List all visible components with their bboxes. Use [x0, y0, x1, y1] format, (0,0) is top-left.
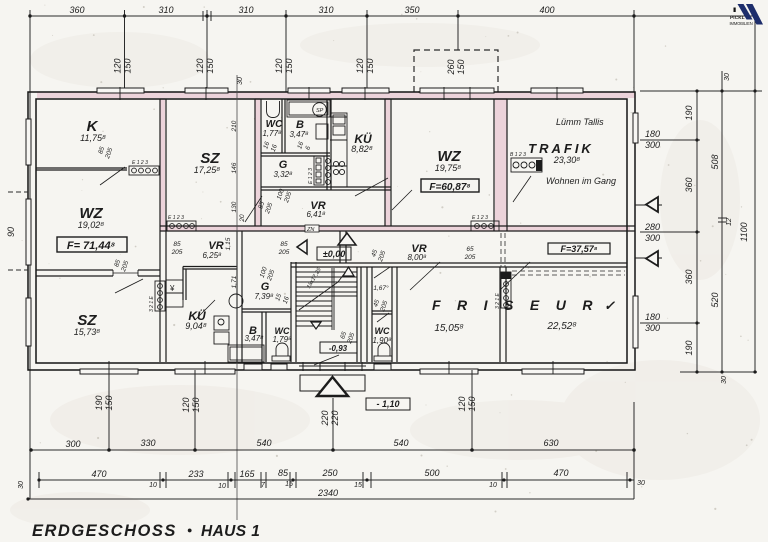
svg-text:3,47⁸: 3,47⁸	[244, 334, 264, 343]
svg-text:190: 190	[94, 395, 104, 410]
svg-text:15: 15	[285, 481, 293, 488]
svg-text:150: 150	[123, 58, 133, 73]
svg-text:ERDGESCHOSS: ERDGESCHOSS	[32, 522, 177, 540]
svg-text:65: 65	[466, 246, 474, 253]
svg-text:15,05⁸: 15,05⁸	[434, 323, 463, 334]
svg-text:10: 10	[218, 483, 226, 490]
svg-text:-0,93: -0,93	[329, 344, 348, 353]
svg-text:15: 15	[354, 482, 362, 489]
svg-text:10: 10	[149, 482, 157, 489]
svg-text:85: 85	[280, 241, 288, 248]
svg-text:8,82⁸: 8,82⁸	[351, 144, 373, 154]
svg-text:500: 500	[424, 468, 439, 478]
svg-text:23,30⁸: 23,30⁸	[553, 155, 581, 165]
svg-text:E 1 2 3: E 1 2 3	[168, 215, 184, 221]
svg-text:310: 310	[158, 5, 173, 15]
svg-text:90: 90	[6, 227, 16, 237]
svg-text:330: 330	[140, 438, 155, 448]
svg-text:Lümm Tallis: Lümm Tallis	[556, 117, 604, 127]
svg-text:146: 146	[231, 162, 238, 173]
svg-text:630: 630	[543, 438, 558, 448]
svg-text:- 1,10: - 1,10	[376, 399, 399, 409]
svg-text:150: 150	[205, 58, 215, 73]
svg-text:150: 150	[456, 59, 466, 74]
svg-text:400: 400	[539, 5, 554, 15]
svg-text:8,00⁸: 8,00⁸	[407, 253, 427, 262]
svg-text:ZN: ZN	[306, 227, 314, 233]
svg-text:30: 30	[724, 73, 731, 81]
svg-text:1,79⁸: 1,79⁸	[272, 335, 292, 344]
svg-text:260: 260	[446, 59, 456, 75]
svg-text:FRISEUR: FRISEUR	[432, 297, 609, 313]
svg-text:300: 300	[645, 233, 660, 243]
svg-text:360: 360	[684, 269, 694, 284]
svg-text:E 1 2 3: E 1 2 3	[308, 168, 314, 184]
svg-text:310: 310	[318, 5, 333, 15]
svg-text:30: 30	[237, 77, 244, 85]
svg-text:17,25⁸: 17,25⁸	[194, 165, 221, 175]
svg-text:220: 220	[320, 410, 330, 426]
svg-text:2340: 2340	[317, 488, 338, 498]
svg-text:520: 520	[710, 292, 720, 307]
svg-text:1,67°: 1,67°	[373, 284, 389, 292]
svg-text:Wohnen im Gang: Wohnen im Gang	[546, 176, 616, 186]
svg-text:220: 220	[330, 410, 340, 426]
svg-text:3 2 1 E: 3 2 1 E	[149, 295, 155, 312]
svg-text:190: 190	[684, 340, 694, 355]
svg-text:1100: 1100	[739, 222, 749, 241]
svg-text:150: 150	[467, 396, 477, 411]
svg-text:✓: ✓	[604, 298, 616, 313]
svg-text:TRAFIK: TRAFIK	[528, 141, 594, 156]
svg-text:F= 71,44⁸: F= 71,44⁸	[67, 240, 116, 252]
svg-text:150: 150	[284, 58, 294, 73]
svg-text:E 1 2 3: E 1 2 3	[472, 215, 488, 221]
svg-text:120: 120	[195, 58, 205, 73]
svg-text:540: 540	[256, 438, 271, 448]
svg-text:120: 120	[274, 58, 284, 73]
svg-text:IMMOBILIEN: IMMOBILIEN	[730, 21, 753, 26]
svg-text:F=37,57⁸: F=37,57⁸	[560, 244, 597, 254]
svg-text:540: 540	[393, 438, 408, 448]
svg-text:360: 360	[69, 5, 84, 15]
svg-text:PICKL: PICKL	[730, 15, 745, 20]
svg-text:205: 205	[464, 254, 476, 261]
svg-text:210: 210	[231, 120, 238, 132]
svg-text:12: 12	[726, 218, 733, 226]
svg-text:508: 508	[710, 154, 720, 169]
svg-text:9,04⁸: 9,04⁸	[185, 321, 207, 331]
svg-text:120: 120	[355, 58, 365, 73]
svg-text:310: 310	[238, 5, 253, 15]
svg-text:470: 470	[91, 469, 106, 479]
svg-text:120: 120	[181, 397, 191, 412]
svg-text:19,02⁸: 19,02⁸	[78, 220, 105, 230]
svg-text:30: 30	[637, 480, 645, 487]
svg-text:250: 250	[321, 468, 337, 478]
svg-text:85: 85	[278, 468, 289, 478]
svg-text:HAUS 1: HAUS 1	[201, 523, 260, 540]
svg-text:470: 470	[553, 468, 568, 478]
svg-text:280: 280	[644, 222, 660, 232]
svg-text:130: 130	[231, 201, 238, 212]
svg-text:19,75⁸: 19,75⁸	[435, 163, 462, 173]
svg-text:1,71: 1,71	[231, 275, 238, 288]
svg-text:205: 205	[278, 249, 290, 256]
svg-text:120: 120	[457, 396, 467, 411]
svg-text:15,73⁸: 15,73⁸	[74, 327, 101, 337]
svg-text:3,32⁸: 3,32⁸	[273, 170, 293, 179]
svg-text:1,77⁸: 1,77⁸	[262, 129, 282, 138]
svg-text:±0,00: ±0,00	[323, 249, 345, 259]
svg-text:22,52⁸: 22,52⁸	[546, 321, 576, 332]
svg-text:360: 360	[684, 177, 694, 192]
svg-text:190: 190	[684, 105, 694, 120]
svg-text:10: 10	[489, 482, 497, 489]
svg-text:300: 300	[65, 439, 80, 449]
svg-text:11,75⁸: 11,75⁸	[80, 133, 106, 143]
svg-text:180: 180	[645, 129, 660, 139]
svg-text:30: 30	[721, 376, 728, 384]
svg-text:150: 150	[104, 395, 114, 410]
svg-text:205: 205	[171, 249, 183, 256]
svg-text:¥: ¥	[169, 284, 175, 293]
svg-text:WC: WC	[375, 326, 390, 336]
svg-text:120: 120	[113, 58, 123, 73]
svg-text:180: 180	[645, 312, 660, 322]
svg-text:F=60,87⁸: F=60,87⁸	[429, 182, 470, 193]
svg-text:20: 20	[239, 214, 246, 223]
svg-text:7,39⁸: 7,39⁸	[254, 292, 274, 301]
svg-text:●: ●	[187, 525, 192, 535]
svg-text:150: 150	[365, 58, 375, 73]
svg-text:150: 150	[191, 397, 201, 412]
svg-text:E 1 2 3: E 1 2 3	[132, 160, 148, 166]
svg-text:1,90⁸: 1,90⁸	[372, 336, 392, 345]
svg-text:300: 300	[645, 323, 660, 333]
svg-text:30: 30	[18, 481, 25, 489]
svg-text:233: 233	[187, 469, 203, 479]
svg-text:6,41⁸: 6,41⁸	[306, 210, 326, 219]
svg-text:SP: SP	[316, 108, 324, 114]
svg-text:300: 300	[645, 140, 660, 150]
svg-text:B 1 2 3: B 1 2 3	[510, 152, 526, 158]
svg-text:6,25⁸: 6,25⁸	[202, 251, 222, 260]
svg-text:165: 165	[239, 469, 255, 479]
svg-text:1,15: 1,15	[225, 237, 232, 250]
svg-text:3,47⁸: 3,47⁸	[289, 130, 309, 139]
svg-text:350: 350	[404, 5, 419, 15]
svg-text:85: 85	[173, 241, 181, 248]
